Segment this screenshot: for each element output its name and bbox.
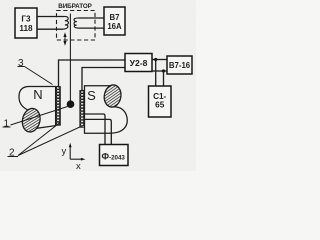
callout 1: [3, 107, 68, 130]
amplifier U2-8 box: [125, 54, 152, 72]
wire S coil to F-2043 left: [85, 114, 106, 145]
vibration direction double arrow: [63, 32, 66, 46]
wire S coil to F-2043 right: [85, 119, 112, 144]
pickup coil L2: [74, 18, 79, 28]
wire right measuring coil to U2-8: [82, 68, 125, 92]
oscilloscope S1-65 box: [149, 86, 172, 117]
junction top: [154, 58, 157, 61]
wire down to S1-65 left: [155, 60, 157, 87]
voltmeter V7-16 box: [167, 56, 192, 74]
sample (black dot): [67, 100, 75, 108]
wire generator to drive coil top: [37, 16, 64, 18]
junction bottom: [162, 69, 165, 72]
wire pickup coil to V7-16A top: [79, 17, 105, 19]
callout 3: [18, 58, 53, 85]
electrometer F-2043 box: [100, 145, 129, 166]
vibrator dashed enclosure: [57, 11, 96, 41]
vibrator core / push rod: [69, 14, 71, 102]
magnet winding cross-section right (hatched): [102, 84, 122, 109]
drive coil L1: [63, 16, 68, 29]
wire pickup coil to V7-16A bottom: [79, 27, 105, 29]
S pole piece body: [85, 86, 128, 134]
generator G3-118 box: [15, 8, 37, 38]
wire generator to drive coil bottom: [37, 28, 63, 30]
S pole face measuring coil: [80, 90, 85, 127]
wire U2-8 to V7-16 top: [152, 59, 167, 61]
wire left measuring coil to U2-8: [59, 60, 126, 88]
measuring coil left (pole face winding): [56, 86, 61, 125]
scan grain overlay: [0, 0, 196, 171]
voltmeter V7-16A box: [104, 7, 125, 35]
N pole piece body: [19, 87, 56, 129]
magnet winding cross-section left (hatched): [20, 107, 42, 134]
wire U2-8 to V7-16 bottom: [152, 70, 167, 72]
wire down to S1-65 right: [163, 71, 165, 86]
coordinate axes x-y: [62, 143, 86, 172]
callout 2: [8, 123, 84, 159]
